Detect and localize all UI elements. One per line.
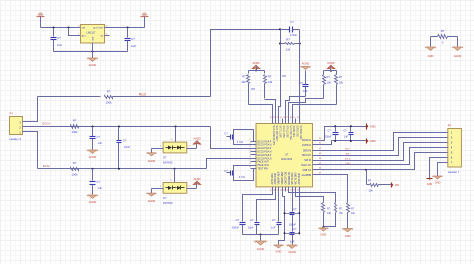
svg-text:NC: NC xyxy=(100,36,104,38)
svg-text:Header 7: Header 7 xyxy=(448,170,460,174)
svg-text:IN?: IN? xyxy=(282,74,287,78)
svg-text:4.7nF: 4.7nF xyxy=(237,141,244,144)
svg-text:CLK OUT SEL: CLK OUT SEL xyxy=(289,126,291,142)
svg-text:BAT54S: BAT54S xyxy=(163,161,173,165)
svg-text:AVDD: AVDD xyxy=(193,177,200,181)
svg-text:R?: R? xyxy=(327,75,331,79)
svg-text:18: 18 xyxy=(293,190,295,192)
svg-text:DRDYB: DRDYB xyxy=(303,150,312,152)
svg-text:ECG2 PGA N: ECG2 PGA N xyxy=(258,151,272,154)
svg-text:DVDD DIG: DVDD DIG xyxy=(296,126,298,137)
svg-text:SCLK CK: SCLK CK xyxy=(301,165,311,167)
svg-text:R?: R? xyxy=(73,161,77,165)
svg-text:XTAL1 OSC: XTAL1 OSC xyxy=(282,126,285,139)
svg-text:25: 25 xyxy=(287,117,289,119)
svg-text:ECG+: ECG+ xyxy=(42,122,51,126)
svg-text:VIN: VIN xyxy=(395,183,399,187)
svg-text:100nF: 100nF xyxy=(232,226,240,230)
svg-text:VREFP REF: VREFP REF xyxy=(279,171,281,184)
svg-text:C?: C? xyxy=(250,218,254,222)
svg-text:100k: 100k xyxy=(71,130,78,134)
svg-text:IN?: IN? xyxy=(251,87,256,91)
svg-text:C?: C? xyxy=(97,180,101,184)
svg-text:C?: C? xyxy=(236,218,240,222)
svg-text:AGND: AGND xyxy=(89,155,97,159)
svg-text:ADS1293: ADS1293 xyxy=(281,157,293,161)
svg-text:ALARMB: ALARMB xyxy=(302,174,312,177)
svg-text:GND: GND xyxy=(276,250,282,254)
svg-text:VIN: VIN xyxy=(82,28,86,30)
svg-text:R?: R? xyxy=(339,75,343,79)
svg-text:1uF: 1uF xyxy=(303,89,308,93)
svg-text:16: 16 xyxy=(287,190,289,192)
svg-text:GND: GND xyxy=(370,139,376,143)
svg-text:10nF: 10nF xyxy=(124,145,130,149)
svg-text:SDO: SDO xyxy=(345,149,350,151)
svg-text:GND: GND xyxy=(345,234,351,238)
svg-text:SDO DO: SDO DO xyxy=(302,155,311,157)
svg-text:DGND D: DGND D xyxy=(302,140,311,142)
svg-text:1uF: 1uF xyxy=(57,43,62,47)
svg-text:28: 28 xyxy=(297,117,299,119)
svg-text:1uF: 1uF xyxy=(290,240,295,243)
svg-text:DVDD: DVDD xyxy=(327,61,334,65)
svg-text:R?: R? xyxy=(268,75,272,79)
svg-text:ECG-: ECG- xyxy=(43,164,51,168)
svg-text:C?: C? xyxy=(300,81,304,85)
svg-text:AGND: AGND xyxy=(89,200,97,204)
svg-text:10k: 10k xyxy=(339,81,344,85)
svg-text:WCTB DRV: WCTB DRV xyxy=(296,172,298,185)
svg-text:GND: GND xyxy=(428,54,434,58)
svg-text:1M: 1M xyxy=(286,48,291,52)
svg-text:AGND: AGND xyxy=(302,62,310,66)
svg-text:12: 12 xyxy=(273,190,275,192)
svg-text:11: 11 xyxy=(270,190,272,192)
svg-text:AVSS ANA: AVSS ANA xyxy=(271,173,274,185)
svg-text:GND: GND xyxy=(370,124,376,128)
svg-text:ADJ: ADJ xyxy=(82,35,86,38)
svg-text:P?: P? xyxy=(10,112,14,116)
svg-text:R?: R? xyxy=(242,75,246,79)
svg-text:ECG1 PGA N: ECG1 PGA N xyxy=(258,144,272,147)
svg-text:R?: R? xyxy=(286,37,290,41)
svg-text:100nF: 100nF xyxy=(289,223,297,226)
svg-text:1uF: 1uF xyxy=(131,44,136,48)
svg-text:D?: D? xyxy=(163,196,167,200)
svg-text:EXT CLKIN: EXT CLKIN xyxy=(279,126,281,138)
svg-text:U?: U? xyxy=(285,153,289,157)
svg-text:SDI DI: SDI DI xyxy=(304,160,311,162)
svg-text:ECG2 PGA P: ECG2 PGA P xyxy=(258,147,272,150)
svg-text:ECG3 PGA P: ECG3 PGA P xyxy=(258,154,272,157)
svg-text:RLDREF RL: RLDREF RL xyxy=(289,171,291,184)
svg-text:AGND: AGND xyxy=(257,247,265,251)
svg-text:C?: C? xyxy=(123,139,127,143)
svg-text:DGND DIG: DGND DIG xyxy=(292,126,294,138)
svg-text:GND: GND xyxy=(435,181,441,185)
svg-text:PACE IN P: PACE IN P xyxy=(258,161,270,164)
svg-text:BAT54S: BAT54S xyxy=(163,201,173,205)
svg-text:PACE IN N: PACE IN N xyxy=(258,164,270,167)
svg-text:19: 19 xyxy=(297,190,299,192)
svg-text:AVSS SUB: AVSS SUB xyxy=(298,173,301,185)
svg-text:C?: C? xyxy=(57,36,61,40)
svg-text:23: 23 xyxy=(280,117,282,119)
svg-text:SDI: SDI xyxy=(346,153,350,155)
svg-text:DVDD D: DVDD D xyxy=(302,145,311,147)
svg-text:C?: C? xyxy=(290,20,294,24)
svg-text:GND: GND xyxy=(92,36,94,41)
svg-text:Header 3: Header 3 xyxy=(10,137,22,141)
svg-text:LM1117: LM1117 xyxy=(87,30,97,34)
svg-text:14: 14 xyxy=(280,190,282,192)
svg-text:AVDD: AVDD xyxy=(193,136,200,140)
svg-text:R?: R? xyxy=(441,29,445,33)
svg-text:R?: R? xyxy=(73,119,77,123)
svg-text:CMOUT CM: CMOUT CM xyxy=(285,172,287,185)
svg-text:1uF: 1uF xyxy=(98,186,103,190)
svg-text:GND: GND xyxy=(427,183,433,186)
svg-text:VOUT: VOUT xyxy=(97,28,104,30)
svg-text:AGND: AGND xyxy=(89,63,97,67)
svg-text:AGND: AGND xyxy=(288,250,296,254)
svg-text:ECG3 PGA N: ECG3 PGA N xyxy=(258,157,272,160)
svg-text:C?: C? xyxy=(131,37,135,41)
svg-text:TEST PIN: TEST PIN xyxy=(258,169,269,171)
svg-text:VREFN REF: VREFN REF xyxy=(282,171,284,185)
svg-text:1.5nF: 1.5nF xyxy=(290,33,297,37)
svg-text:C?: C? xyxy=(272,218,276,222)
svg-text:4.7nF: 4.7nF xyxy=(239,176,246,179)
svg-text:21: 21 xyxy=(273,117,275,119)
svg-text:15: 15 xyxy=(283,190,285,192)
svg-text:20: 20 xyxy=(270,117,272,119)
svg-text:1uF: 1uF xyxy=(344,136,349,139)
svg-text:100k: 100k xyxy=(105,100,112,104)
svg-text:CSB: CSB xyxy=(345,163,350,165)
svg-text:R?: R? xyxy=(368,179,372,183)
svg-text:WCTA DRV: WCTA DRV xyxy=(291,172,294,184)
svg-text:P?: P? xyxy=(448,124,452,128)
svg-text:AGND: AGND xyxy=(148,159,156,163)
svg-text:13: 13 xyxy=(276,190,278,192)
svg-text:22: 22 xyxy=(276,117,278,119)
svg-text:17: 17 xyxy=(290,190,292,192)
svg-text:VIN: VIN xyxy=(39,13,43,15)
svg-text:AVDD ANA: AVDD ANA xyxy=(274,173,277,185)
svg-text:RLD AGND/RLDIN: RLD AGND/RLDIN xyxy=(272,126,275,146)
svg-text:100k: 100k xyxy=(71,172,78,176)
svg-text:SCLK: SCLK xyxy=(345,158,351,160)
svg-text:10k: 10k xyxy=(327,81,332,85)
svg-text:CSB CS: CSB CS xyxy=(302,170,311,172)
svg-text:10uF: 10uF xyxy=(248,226,254,230)
svg-text:27: 27 xyxy=(293,117,295,119)
svg-text:R?: R? xyxy=(107,90,111,94)
svg-text:AGND: AGND xyxy=(454,54,462,58)
svg-text:GND: GND xyxy=(321,233,327,237)
svg-text:DVDDIO REF: DVDDIO REF xyxy=(299,126,301,141)
svg-text:C?: C? xyxy=(97,135,101,139)
svg-text:10k: 10k xyxy=(241,80,246,84)
svg-text:100nF: 100nF xyxy=(325,136,332,139)
svg-text:AGND: AGND xyxy=(148,199,156,203)
svg-text:AVDD: AVDD xyxy=(252,61,259,65)
svg-text:1uF: 1uF xyxy=(271,226,276,230)
svg-text:XTAL2 OSC: XTAL2 OSC xyxy=(285,126,288,139)
svg-text:24: 24 xyxy=(283,117,285,119)
svg-text:RLD OUT/WCT: RLD OUT/WCT xyxy=(275,126,277,143)
svg-text:10k: 10k xyxy=(368,188,373,192)
svg-text:26: 26 xyxy=(290,117,292,119)
svg-text:RLD: RLD xyxy=(139,93,147,97)
svg-text:10k: 10k xyxy=(268,80,273,84)
svg-text:D?: D? xyxy=(163,156,167,160)
svg-text:ECG1 PGA P: ECG1 PGA P xyxy=(258,140,272,143)
svg-text:1uF: 1uF xyxy=(98,141,103,145)
